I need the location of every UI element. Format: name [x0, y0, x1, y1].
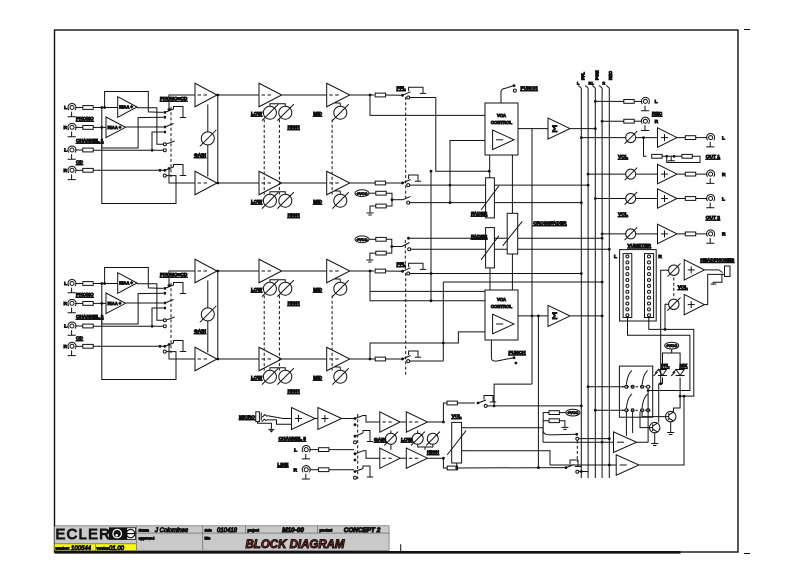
svg-text:VCA: VCA: [497, 297, 506, 302]
svg-text:J Colomines: J Colomines: [154, 528, 188, 534]
jack MICRO: [256, 412, 275, 433]
wire: [677, 198, 685, 200]
potentiometer GAIN ch2: [200, 306, 216, 322]
fold tick top right: [744, 29, 750, 31]
ground feedback tap: [670, 156, 672, 161]
svg-text:ECLER: ECLER: [56, 527, 112, 543]
fader VOL ch3: [447, 422, 466, 463]
svg-text:LOW: LOW: [251, 111, 263, 117]
svg-text:VOL: VOL: [618, 212, 628, 218]
wire q1 base: [642, 412, 665, 417]
op-amp gain R ch2: [195, 347, 217, 371]
wire phones feed 2: [665, 304, 669, 329]
svg-text:CHANNEL 3: CHANNEL 3: [279, 436, 307, 442]
RCA input L PHONO channel 1: [68, 103, 76, 116]
wire link bottom: [494, 384, 532, 406]
wire EQ out R: [350, 182, 375, 184]
ganged switch dashed link: [170, 283, 172, 353]
potentiometer LOW L ch1: [262, 104, 278, 120]
switch bias ch1: [391, 198, 394, 201]
op-amp EQ mid R ch1: [327, 171, 350, 195]
op-amp PFL mix L: [614, 432, 637, 453]
wire: [75, 345, 83, 347]
op-amp phones L: [684, 260, 704, 280]
wire out OUT2 L: [595, 198, 625, 200]
svg-text:PHONO=CD: PHONO=CD: [160, 272, 188, 278]
wire gain pot link: [207, 105, 209, 132]
wire ch3 link R: [400, 457, 406, 459]
wire amp to EQ R: [217, 358, 259, 360]
fader channel 1: [481, 178, 499, 218]
wire EQ link R: [282, 358, 327, 360]
op-amp EQ bass L ch1: [259, 83, 282, 107]
potentiometer phones VOL R: [667, 298, 680, 311]
wire ch3 out R: [428, 458, 448, 468]
VCA control block channel 1: [485, 103, 518, 155]
wire: [634, 120, 642, 122]
resistor line R: [319, 468, 329, 472]
wire mid pot stub L: [339, 279, 341, 282]
svg-text:L: L: [614, 254, 617, 260]
wire mic to amp: [267, 416, 291, 419]
wire: [696, 198, 708, 200]
wire: [636, 233, 658, 235]
potentiometer GAIN ch3: [384, 432, 398, 446]
op-amp EQ bass R ch2: [259, 347, 282, 371]
wire to PFL switch R: [386, 182, 402, 184]
switch PHONO-CD ch1 group4: [163, 169, 166, 172]
svg-text:L: L: [64, 148, 67, 154]
svg-text:+VCC: +VCC: [666, 343, 677, 348]
VU LED dots R: [648, 255, 651, 317]
wire riaa L out: [137, 108, 163, 145]
wire cd L to switch: [152, 132, 163, 150]
svg-text:R: R: [603, 82, 606, 86]
wire EQ link L: [282, 94, 327, 96]
svg-text:L: L: [64, 105, 67, 111]
wire PFL NC ch2 L line: [410, 273, 582, 275]
VCA control block channel 2: [485, 290, 518, 340]
wire switch to gain amp B: [169, 345, 195, 360]
RCA output OUT1 R: [706, 170, 714, 183]
switch PHONO-CD ch1 group2: [163, 126, 166, 129]
svg-text:date: date: [205, 529, 212, 533]
svg-text:HIGH: HIGH: [288, 301, 301, 307]
wire EQ out R: [350, 358, 375, 360]
wire bus to switch row2: [595, 409, 625, 411]
dashed gang row1: [622, 386, 651, 388]
wire: [636, 137, 658, 139]
ganged mic/line dashed: [357, 414, 359, 479]
resistor phono L ch1: [83, 106, 93, 110]
op-amp output OUT2 R: [658, 224, 678, 244]
wire: [309, 449, 318, 451]
LED PFL: [654, 369, 668, 376]
svg-text:LINE: LINE: [277, 462, 289, 468]
wire to PFL switch L: [386, 94, 402, 96]
svg-text:MICRO: MICRO: [239, 415, 255, 421]
wire ground return loop: [102, 108, 176, 204]
op-amp ch3 gain R: [380, 448, 400, 468]
channel 2 strip: [64, 259, 485, 394]
switch PFL L ch1: [401, 94, 404, 97]
svg-text:GAIN: GAIN: [374, 437, 387, 443]
svg-text:+VCC: +VCC: [357, 237, 368, 242]
svg-text:product: product: [320, 529, 334, 533]
svg-text:FADER: FADER: [471, 234, 488, 240]
svg-text:GAIN: GAIN: [194, 329, 207, 335]
svg-text:PUNCH: PUNCH: [521, 86, 539, 92]
wire bias ch2: [369, 238, 376, 240]
wire pfl R out: [639, 396, 684, 465]
feedback network out1: [652, 154, 693, 158]
op-amp mic 1: [292, 408, 316, 430]
fold tick bottom right: [744, 553, 750, 555]
frame bottom thick: [55, 551, 681, 554]
wire pfl L out: [637, 391, 649, 443]
op-amp EQ mid R ch2: [327, 347, 350, 371]
wire bias gnd ch2: [370, 253, 376, 256]
switch arms row2: [626, 394, 632, 408]
wire: [309, 469, 318, 471]
wire riaa L feedback: [105, 92, 163, 113]
svg-text:HIGH: HIGH: [288, 213, 301, 219]
op-amp output OUT1 R: [658, 164, 678, 184]
wire ch3 pfl line: [487, 405, 581, 407]
wire to PFL switch R: [386, 358, 402, 360]
wire EQ pots L: [270, 104, 285, 106]
op-amp output OUT2 L: [658, 189, 678, 209]
svg-text:+VCC: +VCC: [357, 191, 368, 196]
logo ECLER: [56, 527, 136, 543]
svg-text:01.00: 01.00: [109, 546, 125, 552]
svg-text:100544: 100544: [71, 546, 92, 552]
svg-text:RIAA +: RIAA +: [108, 125, 122, 130]
wire ch3 eq pots: [417, 431, 419, 434]
svg-text:R: R: [64, 125, 68, 131]
switch bias ch2: [390, 245, 393, 248]
wire to VCA1 lower input: [450, 141, 485, 186]
wire cd L to switch: [152, 308, 163, 326]
op-amp gain L ch1: [195, 83, 217, 107]
svg-text:L: L: [64, 281, 67, 287]
headphone jack: [711, 266, 730, 284]
switch ch3 pfl: [477, 402, 480, 405]
ground Q1: [670, 422, 672, 429]
op-amp summing R: [548, 305, 570, 326]
wire mix NC line: [579, 471, 588, 473]
potentiometer LOW R ch1: [262, 192, 278, 208]
wire gain pot link: [207, 281, 209, 308]
RCA output REC R: [641, 117, 649, 130]
switch PHONO-CD ch2 group4: [163, 345, 166, 348]
resistor phono R ch1: [83, 126, 93, 130]
wire VCA feed L: [370, 95, 485, 115]
svg-text:VOL: VOL: [618, 154, 628, 160]
wire punch2: [490, 340, 492, 359]
svg-text:R: R: [64, 301, 68, 307]
switch PHONO-CD ch1 group1: [163, 111, 166, 114]
svg-text:LOW: LOW: [251, 287, 263, 293]
RCA input LINE R: [302, 466, 310, 479]
resistor PFL R ch1: [375, 181, 385, 185]
switch PUNCH ch1: [513, 84, 516, 87]
RCA input LINE L: [302, 446, 310, 459]
svg-text:CONCEPT 2: CONCEPT 2: [344, 527, 381, 534]
svg-text:PUNCH: PUNCH: [509, 350, 527, 356]
RCA input L PHONO channel 2: [68, 279, 76, 292]
RCA input R CD ch2: [68, 342, 76, 355]
svg-text:PFL: PFL: [397, 262, 406, 268]
wire slider right L: [462, 427, 465, 429]
switch PHONO-CD ch2 group1: [163, 287, 166, 290]
op-amp ch3 eq R: [406, 448, 427, 468]
wire ch2 vca feed: [370, 271, 485, 301]
potentiometer VOL OUT2 L: [625, 192, 638, 205]
power +VCC phones: [665, 342, 679, 349]
bus lines PFL/PGM/REC: [580, 88, 582, 478]
svg-text:VUMETER: VUMETER: [628, 243, 652, 249]
wire out OUT1 R: [588, 173, 626, 175]
resistor CD L ch1: [83, 148, 93, 152]
wire mid pot stub L: [339, 103, 341, 106]
wire sum R out: [570, 315, 602, 317]
potentiometer MID R ch2: [332, 368, 348, 384]
op-amp EQ mid L ch2: [327, 259, 350, 283]
svg-text:title: title: [205, 537, 211, 541]
ganged PFL dashed link: [405, 97, 407, 199]
sheet center tick: [400, 544, 402, 551]
wire ch3 out L: [428, 403, 448, 422]
wire EQ out L: [350, 270, 374, 272]
svg-text:approved: approved: [139, 537, 155, 541]
wire bias NC ch1 to bus: [410, 202, 582, 204]
switch hp source: [575, 433, 578, 436]
switch MIC/LINE group4: [354, 470, 357, 473]
op-amp RIAA preamp L ch1: [118, 97, 137, 118]
wire to PFL switch L: [386, 270, 402, 272]
wire hp switch to bus: [579, 438, 610, 440]
resistor bias upper ch2: [376, 237, 386, 241]
wire amp to EQ R: [217, 182, 259, 184]
svg-text:CONTROL: CONTROL: [491, 304, 513, 309]
svg-text:PHONO=CD: PHONO=CD: [160, 96, 188, 102]
switch MIC/LINE group3: [354, 452, 357, 455]
RCA output OUT1 L: [706, 134, 714, 147]
op-amp RIAA preamp R ch1: [106, 117, 126, 138]
wire VCA1 out: [518, 128, 548, 130]
wire: [75, 169, 83, 171]
ganged PFL dashed link: [405, 273, 407, 375]
wire EQ link R: [282, 182, 327, 184]
wire fader1 top: [489, 155, 491, 178]
resistor phono L ch2: [83, 282, 93, 286]
RCA input L CD ch2: [68, 322, 76, 335]
switch PUNCH ch2: [513, 356, 516, 359]
svg-text:PFL: PFL: [397, 86, 406, 92]
wire VCA feed L: [370, 271, 485, 291]
potentiometer MID L ch2: [332, 280, 348, 296]
svg-text:L: L: [294, 447, 297, 453]
resistor hp2: [549, 419, 559, 423]
wire PFL NC ch2 R line: [410, 360, 444, 362]
resistor out OUT1 R: [685, 172, 695, 176]
svg-text:HIGH: HIGH: [288, 125, 301, 131]
crossfader: [503, 213, 523, 254]
wire out OUT1 L: [581, 137, 625, 139]
wire amp to EQ L: [217, 94, 259, 96]
switch MIC/LINE group2: [354, 435, 357, 438]
wire bias: [369, 192, 376, 194]
wire ch3 link L: [400, 421, 406, 423]
wire mid pot stub R: [339, 191, 341, 194]
transistor Q1: [666, 411, 676, 421]
svg-text:CD: CD: [76, 160, 83, 166]
svg-text:CHANNEL 1: CHANNEL 1: [76, 138, 104, 144]
wire bias gnd: [370, 206, 376, 209]
svg-text:Σ: Σ: [552, 124, 558, 134]
svg-text:RIAA +: RIAA +: [119, 281, 133, 286]
svg-text:PFL: PFL: [661, 363, 670, 368]
op-amp ch3 gain L: [380, 412, 400, 432]
svg-text:PHONO: PHONO: [76, 116, 94, 122]
potentiometer LOW L ch2: [262, 280, 278, 296]
wire bus to switch row1: [588, 386, 625, 388]
potentiometer VOL OUT1 R: [625, 168, 638, 181]
resistor out OUT1 L: [685, 136, 695, 140]
svg-text:MID: MID: [313, 375, 322, 381]
svg-text:OUT 1: OUT 1: [706, 154, 720, 160]
bus top ticks: [578, 86, 581, 89]
svg-text:VOL: VOL: [452, 414, 462, 420]
ganged dashed ch3 pfl-mix: [576, 441, 578, 463]
ganged VOL dashed link: [673, 278, 675, 298]
wire gain gang: [217, 95, 219, 183]
svg-text:MID: MID: [313, 287, 322, 293]
svg-text:FADER: FADER: [471, 211, 488, 217]
svg-text:CROSSFADER: CROSSFADER: [533, 221, 567, 227]
wire: [634, 100, 642, 102]
switch ch3 mix: [565, 466, 568, 469]
wire link vertical: [430, 171, 432, 301]
svg-text:R: R: [64, 344, 68, 350]
resistor PFL R ch2: [375, 357, 385, 361]
wire riaa R feedback: [102, 293, 163, 324]
op-amp inside VCA2: [493, 314, 514, 334]
svg-text:LOW: LOW: [401, 437, 413, 443]
op-amp inside VCA1: [493, 130, 514, 150]
potentiometer HIGH L ch2: [277, 280, 293, 296]
svg-text:HIGH: HIGH: [427, 450, 440, 456]
wire bias NC line ch2: [411, 248, 610, 250]
svg-text:L: L: [64, 324, 67, 330]
wire: [75, 107, 83, 109]
wire phones L out: [704, 269, 719, 271]
RCA output OUT2 L: [706, 194, 714, 207]
switch PFL L ch2: [401, 270, 404, 273]
wire slider bottom: [456, 463, 458, 468]
dashed gang row2: [622, 409, 651, 411]
svg-text:R: R: [658, 254, 662, 260]
wire mic out: [342, 418, 354, 420]
wire riaa R out: [126, 302, 164, 304]
wire phones feed 1: [661, 270, 669, 384]
svg-text:MID: MID: [313, 199, 322, 205]
wire to ch3 eq L: [363, 416, 380, 423]
switch PHONO-CD ch2 group3: [163, 319, 166, 322]
resistor out OUT2 L: [685, 197, 695, 201]
wire: [677, 233, 685, 235]
svg-text:GAIN: GAIN: [194, 153, 207, 159]
wire crossfader top: [511, 155, 513, 213]
op-amp mic 2: [318, 408, 342, 430]
potentiometer HIGH L ch1: [277, 104, 293, 120]
ganged EQ dashed links: [263, 120, 265, 195]
wire riaa R feedback: [102, 117, 163, 148]
svg-text:R: R: [294, 468, 298, 474]
resistor REC R: [624, 119, 634, 123]
wire q2 base: [640, 412, 650, 428]
svg-text:Σ: Σ: [552, 311, 558, 321]
wire phones R out: [704, 274, 723, 304]
op-amp summing L: [548, 118, 570, 139]
svg-text:BLOCK DIAGRAM: BLOCK DIAGRAM: [245, 539, 344, 551]
wire: [559, 412, 566, 414]
potentiometer HIGH ch3: [426, 432, 440, 446]
svg-text:R: R: [722, 172, 726, 178]
potentiometer LOW ch3: [411, 432, 425, 446]
svg-text:R: R: [722, 232, 726, 238]
wire amp to EQ L: [217, 270, 259, 272]
VU LED dots L: [626, 255, 629, 317]
resistor CD R ch2: [83, 344, 93, 348]
wire mix line: [458, 467, 566, 469]
svg-text:MIX: MIX: [680, 363, 688, 368]
switch arms row1: [626, 371, 632, 385]
wire: [75, 325, 83, 327]
svg-text:R: R: [655, 119, 659, 125]
wire fader2 bottom: [489, 268, 491, 290]
switch MIC/LINE group1: [354, 417, 357, 420]
op-amp RIAA preamp R ch2: [106, 293, 126, 314]
wire VCA2 out: [518, 315, 548, 317]
svg-text:RIAA +: RIAA +: [108, 301, 122, 306]
resistor ch3 pfl L: [447, 401, 457, 405]
wire mic link: [315, 418, 318, 420]
wire switch down stubs: [625, 412, 627, 436]
wire VU bottom R: [649, 318, 665, 330]
wire out OUT2 R: [602, 233, 626, 235]
svg-text:LOW: LOW: [251, 375, 263, 381]
resistor CD R ch1: [83, 168, 93, 172]
wire EQ pots R: [270, 192, 285, 194]
wire ch3 to R: [465, 451, 550, 465]
potentiometer VOL OUT2 R: [625, 227, 638, 240]
wire: [677, 173, 685, 175]
RCA input R PHONO ch1: [68, 123, 76, 136]
switch PFL R ch2: [401, 358, 404, 361]
wire feedback out1: [644, 138, 647, 157]
svg-text:HIGH: HIGH: [288, 389, 301, 395]
resistor PFL L ch2: [375, 269, 385, 273]
wire hp bias: [543, 421, 577, 435]
potentiometer HIGH R ch1: [277, 192, 293, 208]
op-amp ch3 eq L: [406, 412, 427, 432]
svg-text:VCA: VCA: [497, 113, 506, 118]
RCA output OUT2 R: [706, 230, 714, 243]
wire riaa L out: [137, 284, 163, 321]
title block: [55, 526, 390, 551]
